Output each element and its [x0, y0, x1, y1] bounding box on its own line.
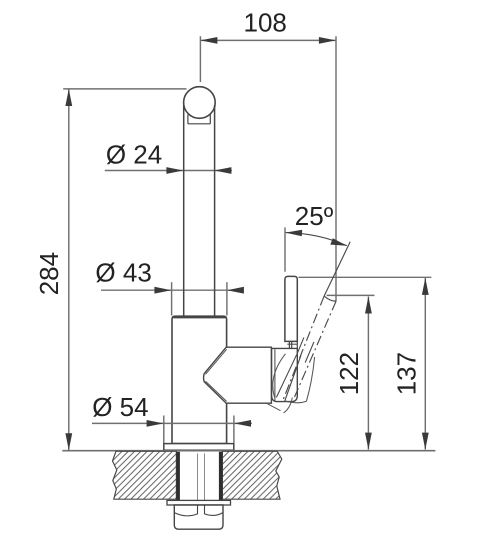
lever cap [272, 348, 298, 401]
spout top sphere [184, 87, 216, 119]
diameter 43 right arrow [227, 287, 244, 294]
dimension 108 left arrow [200, 37, 217, 44]
diameter 54 right arrow [234, 420, 251, 427]
dimension 284 top arrow [65, 89, 72, 106]
spout tube right edge [214, 105, 216, 316]
dimension 137 bottom arrow [422, 433, 429, 450]
diameter 43 left arrow [154, 287, 171, 294]
hex nut facet line left [197, 505, 199, 514]
dimension 122 extension line [327, 294, 375, 296]
diameter 54 dimension line [92, 422, 252, 424]
tilted lever left edge dash-dot [283, 296, 324, 400]
spout neck left line [187, 115, 189, 124]
tilted cap outer right arc [306, 357, 314, 401]
spout neck right line [209, 115, 211, 124]
hex nut body [174, 505, 223, 529]
extension line left of 108 [199, 36, 201, 82]
svg-text:25º: 25º [295, 201, 334, 231]
flange base [164, 444, 234, 451]
faucet body [172, 316, 227, 443]
diameter 43 dimension line [101, 289, 244, 291]
angle arc [285, 233, 347, 246]
dimension 284 line [68, 89, 70, 450]
dimension 137 extension line [299, 276, 432, 278]
diameter 24 right arrow [214, 167, 231, 174]
spout neck bottom line [188, 123, 210, 125]
dimension 108 line [200, 39, 336, 41]
lever bar upright [285, 276, 297, 341]
inner stud line right [204, 454, 206, 501]
diameter 24 left arrow [166, 167, 183, 174]
dimension 108 right arrow [319, 37, 336, 44]
diameter 43 extension line right [226, 282, 228, 315]
dimension 122 top arrow [365, 297, 372, 314]
washer under countertop [167, 500, 231, 505]
lever foot [289, 341, 297, 348]
tilted lever tip arc [324, 296, 336, 301]
dimension 137 line [424, 278, 426, 450]
diameter 24 dimension line [105, 170, 232, 172]
dimension 122 bottom arrow [365, 433, 372, 450]
svg-text:Ø 54: Ø 54 [92, 392, 148, 422]
tilted cap bottom edge [285, 401, 307, 403]
extension line top of 284 [63, 88, 186, 90]
dimension 122 line [367, 297, 369, 450]
shank thread band right [219, 452, 223, 501]
hex nut chamfer arc left [174, 513, 197, 516]
side joint inner facet lower [206, 381, 227, 401]
spout tube left edge [183, 105, 185, 316]
swing arc right [284, 398, 293, 414]
svg-text:137: 137 [392, 352, 422, 395]
lever cap inner line [274, 349, 276, 401]
svg-text:Ø 24: Ø 24 [106, 140, 162, 170]
tilted cap right edge [285, 355, 301, 401]
hex nut facet line right [204, 505, 206, 514]
inner stud line left [197, 454, 199, 501]
tilted cap neck edge left [296, 337, 304, 355]
diameter 54 extension line right [233, 416, 235, 444]
tilted cap inner line [276, 355, 296, 397]
svg-text:Ø 43: Ø 43 [95, 258, 151, 288]
swing arc left [265, 403, 280, 411]
lever foot midline [287, 343, 297, 345]
angle arc left arrow [285, 230, 302, 237]
countertop left hatched block [113, 451, 177, 499]
faucet body top thick edge [173, 316, 225, 318]
tilted lever right edge dash-dot [295, 301, 337, 397]
svg-text:108: 108 [244, 8, 287, 38]
hex nut chamfer arc right [205, 513, 224, 516]
diameter 54 extension line left [163, 416, 165, 444]
shank thread band left [176, 452, 180, 501]
side joint inner facet upper [206, 349, 227, 374]
side joint polygon [204, 347, 272, 403]
joint ball bearing arc [273, 354, 286, 398]
tilted cap neck edge right [305, 342, 314, 363]
extension line right of 108 / angle reference [335, 36, 337, 301]
tilted lever solid edge extension [324, 242, 350, 296]
svg-text:284: 284 [34, 252, 64, 295]
angle extension line left [284, 227, 286, 271]
angle arc right arrow [330, 238, 347, 245]
dimension 284 bottom arrow [65, 433, 72, 450]
svg-text:122: 122 [334, 352, 364, 395]
dimension 137 top arrow [422, 278, 429, 295]
diameter 43 extension line left [171, 282, 173, 315]
diameter 54 left arrow [147, 420, 164, 427]
countertop right hatched block [222, 451, 281, 499]
countertop surface line [62, 450, 435, 452]
